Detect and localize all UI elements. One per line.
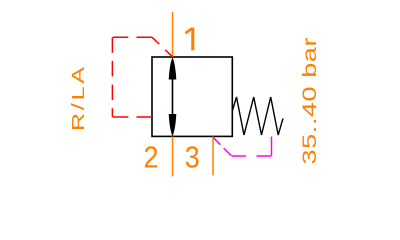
wire port 2 bbox=[172, 136, 174, 176]
flow arrowhead up bbox=[169, 57, 177, 79]
dashed link top horizontal bbox=[112, 36, 152, 38]
valve body U1 bbox=[152, 57, 232, 136]
dashed link left vertical bbox=[111, 37, 113, 117]
pilot dash diagonal from port 3 bbox=[213, 137, 232, 156]
svg-text:2: 2 bbox=[144, 140, 159, 175]
dashed link bottom horizontal bbox=[112, 116, 152, 118]
flow arrowhead down bbox=[169, 114, 177, 136]
dashed link diagonal to port 1 bbox=[152, 37, 172, 57]
pilot dash vertical to spring bbox=[271, 137, 273, 157]
svg-text:3: 3 bbox=[185, 140, 200, 175]
svg-text:R/LA: R/LA bbox=[67, 66, 88, 131]
flow arrow shaft bbox=[172, 75, 174, 118]
svg-text:35..40 bar: 35..40 bar bbox=[299, 37, 320, 164]
wire port 3 bbox=[212, 136, 214, 175]
wire port 1 bbox=[172, 12, 174, 57]
spring bbox=[232, 97, 283, 135]
label port 1 bbox=[185, 28, 192, 51]
pilot dash horizontal bbox=[232, 155, 272, 157]
